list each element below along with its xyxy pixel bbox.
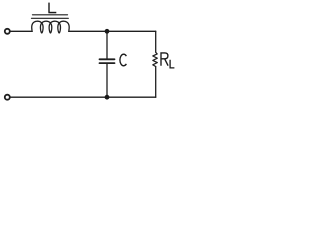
wire top from terminal to inductor xyxy=(11,30,32,32)
capacitor C branch bottom wire xyxy=(106,64,108,97)
wire right vertical top segment xyxy=(155,31,157,52)
label L (inductor) xyxy=(48,3,50,13)
wire bottom xyxy=(11,96,156,98)
junction node top xyxy=(105,29,110,34)
wire right vertical bottom segment xyxy=(155,67,157,98)
capacitor C plates xyxy=(100,58,115,60)
inductor core line lower xyxy=(32,17,69,19)
inductor L coil xyxy=(32,21,69,33)
terminal top-left xyxy=(5,29,10,34)
resistor RL zigzag xyxy=(153,52,158,66)
label L subscript of RL xyxy=(170,60,174,68)
wire top from inductor to right corner xyxy=(69,30,156,32)
junction node bottom xyxy=(105,95,110,100)
capacitor C branch top wire xyxy=(106,31,108,58)
inductor core line upper xyxy=(33,14,68,16)
terminal bottom-left xyxy=(5,95,10,100)
label C (capacitor) xyxy=(120,54,126,66)
label R (resistor) xyxy=(161,53,168,66)
